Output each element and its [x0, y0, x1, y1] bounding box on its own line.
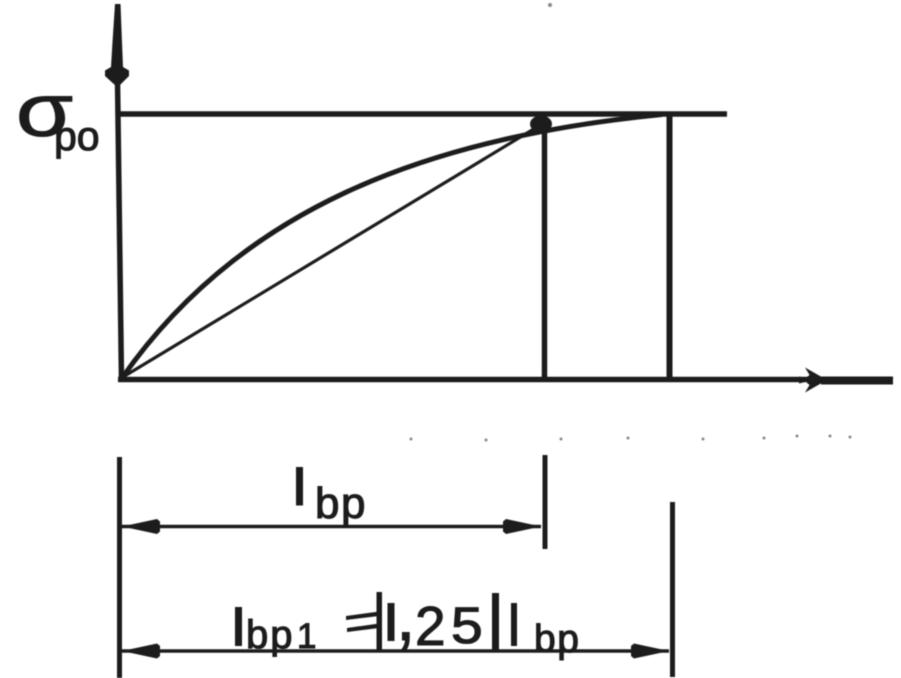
svg-text:,: ,	[396, 577, 415, 655]
svg-text:5: 5	[451, 598, 483, 655]
svg-text:bp: bp	[534, 618, 580, 661]
svg-text:bp: bp	[246, 613, 295, 657]
svg-text:1: 1	[297, 617, 316, 656]
svg-text:2: 2	[415, 595, 446, 657]
svg-text:bp: bp	[315, 479, 367, 528]
svg-text:po: po	[54, 113, 100, 159]
